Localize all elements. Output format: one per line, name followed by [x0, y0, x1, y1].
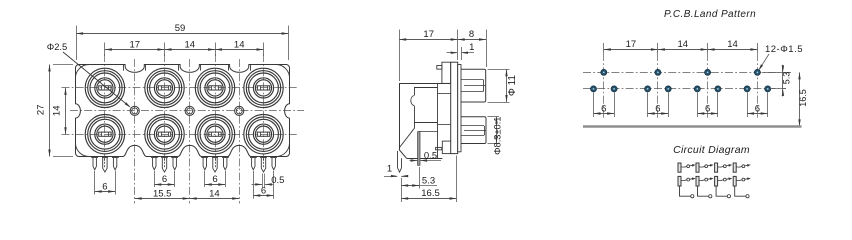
svg-text:6: 6: [212, 174, 217, 185]
side view housing outline: [399, 83, 451, 158]
dimension 59: [76, 23, 289, 35]
circuit unit jack 4 ground wire: [735, 186, 749, 198]
dimension 17 (jack pitch): [105, 39, 165, 50]
svg-text:14: 14: [209, 188, 220, 199]
side view upper barrel (phi 11): [461, 69, 486, 102]
side view lower barrel (phi 8.3): [461, 117, 486, 144]
front view horizontal mid centerline: [70, 110, 304, 112]
side view housing inner wall: [411, 88, 415, 129]
RCA jack B2: [145, 115, 184, 154]
side view front pin (1mm): [398, 151, 402, 172]
side view housing inner diagonal wall: [400, 129, 415, 148]
front view mid column centerline 2: [189, 59, 191, 204]
svg-text:14: 14: [185, 39, 196, 50]
dimension 27 extension lines: [53, 65, 73, 157]
svg-text:0.5: 0.5: [424, 150, 437, 161]
svg-text:1: 1: [387, 164, 392, 175]
dimension 14 (jack pitch 3): [215, 39, 264, 50]
side dimension 0.5 (back pin): [410, 150, 442, 161]
dimension 59 extension lines: [77, 26, 289, 61]
side view body back wall: [437, 83, 439, 158]
circuit unit jack 1 upper contact: [678, 163, 696, 172]
side view back pin (0.5mm): [418, 132, 420, 166]
solder pad top row jack 2: [655, 69, 661, 75]
svg-text:5.3: 5.3: [782, 72, 792, 85]
pocket wall lines at top notch 2: [179, 65, 201, 71]
side dimension phi 11: [505, 69, 518, 102]
front view column centerline 4: [263, 54, 265, 161]
RCA jack A4: [244, 68, 283, 107]
dimension 0.5 (pin thickness): [252, 174, 285, 188]
RCA jack B1: [85, 115, 124, 154]
land pattern dimension 6 jack 3: [697, 93, 718, 118]
land pattern dimension 6 jack 4: [747, 93, 768, 118]
svg-text:6: 6: [755, 104, 760, 115]
dimension 17/14/14 extension lines: [105, 43, 264, 57]
pocket fillet arc bottom-right: [276, 143, 290, 156]
svg-text:6: 6: [261, 186, 266, 197]
pocket fillet arc top-left: [75, 64, 89, 78]
svg-text:6: 6: [102, 181, 107, 192]
side view inner contact lines: [414, 88, 451, 132]
mounting hole 3 (phi 2.5): [235, 106, 244, 115]
PCB board edge: [583, 125, 802, 128]
svg-text:Φ8.3±0.1: Φ8.3±0.1: [493, 117, 503, 155]
svg-text:16.5: 16.5: [798, 89, 808, 107]
label 12-phi1.5 with leader: [758, 44, 803, 71]
side view bottom small tab: [436, 147, 442, 149]
connector body outline front view: [76, 65, 290, 157]
RCA jack B3: [195, 115, 234, 154]
solder pads bottom row jack 3: [694, 86, 721, 92]
land pattern dimension 16.5: [798, 72, 808, 126]
svg-text:16.5: 16.5: [421, 188, 440, 199]
side dimension 1 (collar): [447, 42, 475, 60]
solder pad top row jack 4: [754, 69, 760, 75]
svg-text:59: 59: [175, 23, 186, 34]
pocket fillet arc bottom-left: [76, 143, 90, 156]
side dimension 17/8 extension lines: [400, 30, 487, 82]
svg-text:6: 6: [601, 104, 606, 115]
svg-text:Circuit Diagram: Circuit Diagram: [673, 144, 750, 156]
dimension 14 (jack pitch 2): [165, 39, 216, 50]
front view centerlines row 1: [62, 87, 299, 89]
PCB land pattern title: [664, 9, 756, 20]
circuit diagram title: [673, 144, 750, 156]
land pattern dimension 14 (second): [708, 39, 758, 51]
svg-text:8: 8: [469, 29, 474, 40]
dimension 27 (body height): [36, 65, 51, 157]
svg-text:17: 17: [423, 29, 434, 40]
pins of jack column 1: [92, 157, 119, 173]
side view collar: [458, 65, 461, 152]
front view column centerline 2: [164, 54, 166, 161]
svg-text:Φ 11: Φ 11: [507, 75, 518, 97]
label phi 2.5 with leader: [47, 41, 131, 108]
side view top tab: [437, 66, 442, 70]
land pattern dimension 5.3: [762, 65, 792, 97]
side dimension phi 11 extension lines: [488, 70, 510, 103]
RCA jack A2: [145, 68, 184, 107]
svg-text:0.5: 0.5: [271, 175, 284, 186]
circuit unit jack 2 upper contact: [696, 163, 714, 172]
side view top block: [442, 62, 451, 83]
svg-text:1: 1: [469, 42, 474, 53]
svg-text:6: 6: [162, 174, 167, 185]
svg-text:6: 6: [655, 104, 660, 115]
dimension 6 (jack2 pins): [154, 174, 174, 186]
dimension 6 (jack4 pins): [253, 186, 273, 197]
dimension 6 (jack1 pins): [95, 181, 115, 192]
side dimension phi 8.3 +-0.1: [493, 117, 503, 155]
land pattern dimension 17: [604, 39, 658, 51]
pocket wall lines at top notch 1: [124, 65, 146, 71]
svg-text:14: 14: [727, 39, 738, 50]
circuit unit jack 4 lower contact: [733, 176, 751, 186]
circuit unit jack 2 lower contact: [696, 176, 714, 186]
circuit unit jack 4 upper contact: [733, 163, 751, 172]
land pattern row centerline B: [583, 88, 786, 90]
side dimension 5.3: [401, 167, 437, 189]
circuit unit jack 3 lower contact: [715, 176, 733, 186]
svg-text:15.5: 15.5: [153, 188, 172, 199]
pins of jack column 2: [151, 157, 177, 173]
dimension 6 (jack3 pins) extension lines: [205, 171, 226, 187]
front view centerlines row 2: [62, 134, 299, 136]
RCA jack B4: [244, 115, 283, 154]
pocket fillet arc top-right: [276, 65, 290, 79]
mounting hole 2 (phi 2.5): [185, 106, 194, 115]
side dimension 16.5 extension line: [402, 156, 457, 203]
svg-text:17: 17: [626, 39, 637, 50]
mounting hole 1 (phi 2.5): [130, 106, 139, 115]
dimension 6 (jack1 pins) extension lines: [95, 171, 116, 195]
circuit unit jack 3 ground wire: [716, 186, 730, 198]
side view bottom foot block: [442, 141, 452, 154]
dimension 6 (jack4 pins) extension lines: [254, 171, 274, 199]
dimension 14 (row pitch): [52, 88, 67, 134]
land pattern column centerline 3: [707, 43, 709, 118]
side view flange: [451, 62, 458, 153]
land pattern column centerline 2: [657, 43, 659, 118]
circuit unit jack 3 upper contact: [715, 163, 733, 172]
pins of jack column 4: [250, 157, 276, 173]
front view column centerline 1: [104, 54, 106, 161]
circuit unit jack 1 ground wire: [680, 186, 694, 198]
solder pads bottom row jack 1: [590, 86, 617, 92]
dimension 14 (bottom): [190, 188, 240, 199]
svg-text:P.C.B.Land Pattern: P.C.B.Land Pattern: [664, 9, 756, 20]
dimension 15.5: [135, 188, 190, 199]
RCA jack A1: [85, 68, 124, 107]
RCA jack A3: [195, 68, 234, 107]
svg-text:Φ2.5: Φ2.5: [47, 41, 68, 52]
svg-text:14: 14: [678, 39, 689, 50]
svg-text:17: 17: [130, 39, 141, 50]
front view mid column centerline 1: [134, 59, 136, 204]
solder pads bottom row jack 4: [744, 86, 771, 92]
pocket wall lines at top notch 3: [229, 65, 251, 71]
land pattern dimension 6 jack 1: [594, 93, 615, 118]
dimension 6 (jack2 pins) extension lines: [155, 171, 175, 187]
solder pad top row jack 1: [601, 69, 607, 75]
land pattern dimension 14: [658, 39, 708, 51]
svg-text:12-Φ1.5: 12-Φ1.5: [765, 44, 803, 55]
side dimension phi 8.3 extension lines: [488, 117, 500, 144]
side dimension 8: [458, 29, 486, 41]
dimension 6 (jack3 pins): [205, 174, 225, 186]
land pattern column centerline 4: [757, 43, 759, 118]
svg-text:14: 14: [234, 39, 245, 50]
land pattern column centerline 1: [603, 43, 605, 118]
svg-text:6: 6: [705, 104, 710, 115]
front view column centerline 3: [215, 54, 217, 161]
side dimension 17: [399, 29, 458, 41]
svg-text:27: 27: [36, 105, 47, 116]
pins of jack column 3: [202, 157, 229, 173]
solder pad top row jack 3: [705, 69, 711, 75]
circuit unit jack 2 ground wire: [698, 186, 712, 198]
land pattern row centerline A: [583, 72, 792, 74]
land pattern dimension 6 jack 2: [648, 93, 669, 118]
front view mid column centerline 3: [239, 59, 241, 204]
solder pads bottom row jack 2: [645, 86, 672, 92]
svg-text:14: 14: [52, 106, 63, 117]
side dimension 16.5: [401, 188, 456, 200]
svg-text:5.3: 5.3: [422, 175, 435, 186]
circuit unit jack 1 lower contact: [678, 176, 696, 186]
side dimension 1 (front pin): [384, 164, 408, 178]
